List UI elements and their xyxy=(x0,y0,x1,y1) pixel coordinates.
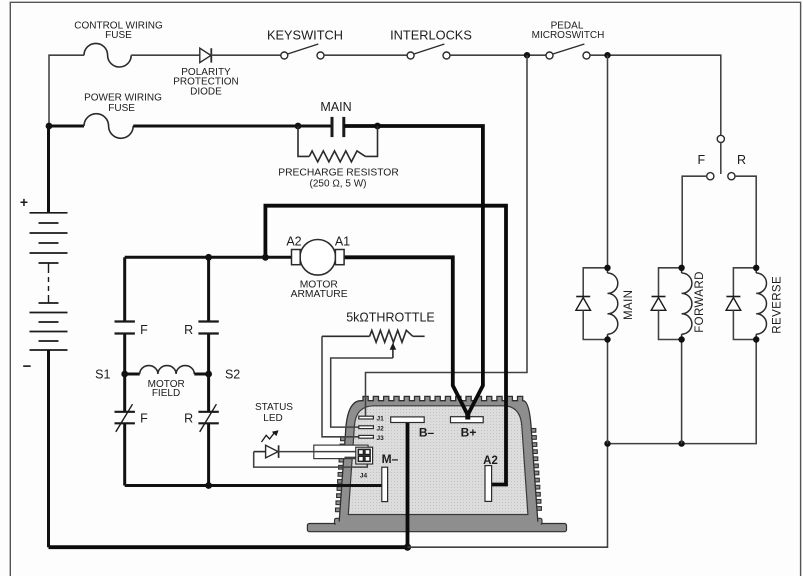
wire field right vertical lower xyxy=(207,424,210,486)
wire fuse to diode xyxy=(131,54,200,56)
terminal A2 bar xyxy=(483,455,498,501)
diode across MAIN coil xyxy=(576,268,608,340)
wire junction to MAIN coil xyxy=(607,55,609,268)
coil MAIN contactor xyxy=(608,268,636,340)
terminal B+ bar xyxy=(451,417,484,440)
wire battery to power fuse xyxy=(49,125,84,128)
inductor motor field xyxy=(125,373,140,376)
node field right top junction xyxy=(205,254,212,261)
node main coil feed junction xyxy=(604,52,610,58)
svg-text:S2: S2 xyxy=(225,368,240,382)
svg-text:MAIN: MAIN xyxy=(320,100,351,114)
diode across FORWARD coil xyxy=(651,268,681,340)
diode polarity protection xyxy=(200,48,211,62)
node S1 xyxy=(121,371,128,378)
node REVERSE coil bottom xyxy=(753,336,759,342)
svg-text:F: F xyxy=(697,153,705,167)
wire field right vertical upper xyxy=(207,257,210,321)
wire throttle wiper to J2 xyxy=(331,358,393,427)
coil FORWARD contactor xyxy=(682,268,706,340)
svg-text:R: R xyxy=(737,153,746,167)
wire armature A2 to controller A2 terminal xyxy=(265,206,506,485)
wire B+ apex nub xyxy=(465,413,470,420)
svg-text:M–: M– xyxy=(382,452,399,466)
node coil bus main xyxy=(604,440,610,446)
wire J4 second pin stub xyxy=(345,456,360,458)
switch F/R selector pole xyxy=(717,135,724,142)
wire field bottom to M- terminal xyxy=(125,484,384,487)
node MAIN coil top xyxy=(604,265,610,271)
svg-text:F: F xyxy=(140,412,148,426)
wire F contact to FORWARD coil xyxy=(682,176,707,268)
wire KSI drop to J1 route xyxy=(366,55,528,416)
svg-text:DIODE: DIODE xyxy=(190,87,222,98)
wire B- terminal drop xyxy=(406,421,410,547)
svg-text:STATUS: STATUS xyxy=(255,402,293,413)
LED emission arrow xyxy=(262,432,275,442)
wire field left vertical upper xyxy=(123,257,126,321)
wire battery negative bus xyxy=(49,545,408,549)
controller box heatsink shell xyxy=(307,396,566,531)
node REVERSE coil top xyxy=(753,265,759,271)
wire coil return bus xyxy=(608,340,757,444)
wire LED cathode to J4 xyxy=(279,451,360,453)
svg-text:5kΩTHROTTLE: 5kΩTHROTTLE xyxy=(346,311,435,325)
svg-text:MAIN: MAIN xyxy=(623,290,635,320)
svg-text:(250 Ω, 5 W): (250 Ω, 5 W) xyxy=(310,178,367,189)
connector J4 xyxy=(356,447,373,479)
terminal M- bar xyxy=(382,452,399,502)
node field bottom junction xyxy=(205,482,212,489)
node B- bus junction xyxy=(404,544,411,551)
svg-text:FIELD: FIELD xyxy=(152,388,180,399)
svg-text:MICROSWITCH: MICROSWITCH xyxy=(532,30,605,41)
contact F top xyxy=(115,320,135,322)
node A2 junction xyxy=(262,254,269,261)
wire MAIN contact to B+ feed xyxy=(344,126,483,414)
svg-text:J2: J2 xyxy=(377,425,385,432)
node MAIN left xyxy=(295,123,302,130)
wire battery+ to control fuse xyxy=(49,55,84,126)
throttle wiper arrow xyxy=(392,348,394,359)
terminal J1 xyxy=(359,416,384,423)
svg-text:A1: A1 xyxy=(335,235,350,249)
svg-text:J4: J4 xyxy=(360,473,368,480)
wire armature A1 to B+ feed xyxy=(343,257,467,413)
node battery positive junction xyxy=(46,123,53,130)
svg-text:−: − xyxy=(23,358,32,375)
wire field left vertical middle xyxy=(123,334,126,412)
fuse control wiring xyxy=(84,43,131,67)
wire throttle end to J3 xyxy=(322,336,359,437)
contact F xyxy=(707,173,714,180)
contact R xyxy=(728,173,735,180)
resistor precharge xyxy=(298,126,309,156)
wire FORWARD coil bottom drop xyxy=(681,340,683,444)
svg-text:FUSE: FUSE xyxy=(108,103,135,114)
contact R top xyxy=(198,320,218,322)
node KSI junction xyxy=(524,52,530,58)
fuse power wiring xyxy=(84,114,133,139)
wire diode to keyswitch xyxy=(211,54,280,56)
svg-text:R: R xyxy=(184,412,193,426)
svg-text:+: + xyxy=(20,194,28,210)
diode across REVERSE coil xyxy=(726,268,756,340)
svg-text:A2: A2 xyxy=(483,455,498,467)
contact R bottom with slash xyxy=(198,411,218,413)
svg-text:S1: S1 xyxy=(95,368,110,382)
node FORWARD coil bottom xyxy=(678,336,684,342)
svg-text:B+: B+ xyxy=(461,426,477,440)
svg-text:FUSE: FUSE xyxy=(105,30,132,41)
svg-text:REVERSE: REVERSE xyxy=(772,276,784,334)
svg-text:INTERLOCKS: INTERLOCKS xyxy=(390,28,472,43)
battery pack xyxy=(20,126,68,547)
node coil bus forward xyxy=(678,440,684,446)
wire keyswitch to interlocks xyxy=(324,54,407,56)
svg-text:KEYSWITCH: KEYSWITCH xyxy=(267,28,343,43)
terminal B- bar xyxy=(391,417,435,440)
svg-text:J1: J1 xyxy=(377,416,385,423)
svg-text:F: F xyxy=(140,323,148,337)
node FORWARD coil top xyxy=(678,265,684,271)
node MAIN coil bottom xyxy=(604,336,610,342)
svg-text:ARMATURE: ARMATURE xyxy=(291,289,348,300)
wire field left vertical lower xyxy=(123,424,126,486)
motor armature xyxy=(300,239,336,275)
wire power fuse to MAIN contact xyxy=(133,125,331,128)
wire pedal switch to F/R selector xyxy=(590,55,721,135)
svg-text:B–: B– xyxy=(419,426,435,440)
coil REVERSE contactor xyxy=(756,268,783,340)
svg-text:FORWARD: FORWARD xyxy=(694,271,706,333)
svg-text:R: R xyxy=(184,323,193,337)
node MAIN right xyxy=(374,123,381,130)
wire interlocks to pedal microswitch xyxy=(450,54,546,56)
contact F bottom with slash xyxy=(115,411,135,413)
node S2 xyxy=(205,371,212,378)
wire field right vertical middle xyxy=(207,334,210,412)
svg-text:PRECHARGE RESISTOR: PRECHARGE RESISTOR xyxy=(278,168,399,179)
terminal J2 xyxy=(359,425,384,432)
connector feed-through rectangle xyxy=(314,445,368,459)
LED diode symbol xyxy=(254,451,266,453)
wire MAIN coil bottom drop xyxy=(607,340,609,444)
svg-text:J3: J3 xyxy=(377,435,385,442)
svg-text:A2: A2 xyxy=(286,235,301,249)
wire field bridge top / armature A2 lead xyxy=(125,256,293,259)
svg-text:LED: LED xyxy=(263,413,282,424)
wire bus to coil return xyxy=(408,444,608,548)
wire LED anode return loop to J4 xyxy=(254,452,368,468)
wire R contact to REVERSE coil xyxy=(735,176,756,268)
terminal J3 xyxy=(359,435,384,442)
